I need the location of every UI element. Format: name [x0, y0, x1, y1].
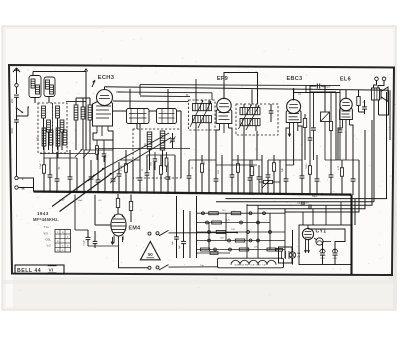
resistor 0.5M — [129, 195, 132, 223]
wire — [43, 118, 45, 150]
tuning gang link — [52, 169, 112, 212]
switch arrow — [262, 180, 270, 188]
wire B+ rail — [105, 87, 389, 90]
aerial coil L2 — [44, 77, 55, 103]
oscillator transformer box 2 — [157, 109, 177, 124]
magic eye EM4 — [111, 214, 126, 236]
wire — [208, 127, 210, 160]
wire — [83, 150, 85, 193]
grid cap arrow — [92, 80, 95, 87]
wire — [293, 131, 295, 165]
wire — [216, 164, 257, 166]
junction — [167, 192, 169, 194]
scan speckle — [9, 31, 396, 308]
wire rail — [208, 223, 210, 250]
svg-text:1µF: 1µF — [282, 167, 284, 172]
svg-text:200: 200 — [10, 98, 14, 103]
tuning arrow — [190, 101, 211, 129]
wire — [247, 120, 372, 205]
wire — [201, 155, 203, 164]
IF transformer 1 box — [189, 100, 216, 130]
wire grid lead — [85, 69, 88, 150]
wire — [350, 125, 354, 160]
coil L6 — [60, 120, 64, 132]
junction — [335, 193, 337, 195]
wire — [74, 195, 76, 231]
svg-text:ECH3: ECH3 — [98, 75, 115, 81]
svg-text:50µF: 50µF — [77, 200, 83, 202]
svg-text:MA: MA — [297, 252, 301, 255]
wire — [153, 162, 155, 193]
junction — [139, 191, 141, 193]
wire — [273, 155, 275, 163]
wire — [323, 241, 331, 243]
wire — [229, 128, 233, 160]
wire — [90, 160, 92, 177]
svg-text:°LG: °LG — [46, 244, 51, 248]
wire rail — [196, 196, 198, 258]
wire — [256, 131, 258, 160]
wire — [17, 115, 29, 117]
wire — [40, 153, 95, 155]
wire — [221, 155, 223, 194]
EBC3 cathode arrows — [288, 126, 298, 137]
wire — [93, 133, 97, 140]
wire — [345, 132, 347, 160]
IF transformer 2 box — [236, 104, 278, 135]
wire — [293, 88, 295, 100]
aerial coil L1 — [29, 72, 41, 104]
rectifier CY1 — [302, 225, 313, 240]
junction — [251, 193, 253, 195]
ground bus drop — [350, 195, 352, 265]
loudspeaker — [381, 87, 388, 102]
duo-diode-triode EBC3 — [286, 96, 301, 131]
wire — [338, 128, 343, 160]
wire — [139, 124, 141, 161]
coil L3 — [42, 106, 46, 118]
junction — [307, 193, 309, 195]
wire — [118, 162, 120, 174]
chassis ground bus — [34, 192, 352, 195]
wire — [33, 71, 86, 73]
oscillator transformer box 1 — [127, 109, 150, 124]
oscillator coil L9 — [88, 98, 92, 150]
wire — [345, 90, 347, 98]
wire — [294, 92, 340, 94]
wire — [146, 155, 148, 173]
wire — [195, 79, 197, 89]
wire — [267, 160, 269, 175]
padder coil 2 — [160, 131, 165, 170]
dropper row 145 — [197, 229, 286, 234]
wire — [232, 159, 262, 161]
antenna terminal — [15, 84, 18, 87]
aerial switch — [16, 107, 24, 113]
wire — [249, 160, 251, 178]
wire — [169, 232, 238, 234]
heater leads — [305, 240, 310, 253]
wire — [226, 92, 387, 199]
band selector arrows — [75, 150, 90, 159]
wire — [389, 90, 391, 140]
wire riser — [302, 212, 304, 225]
wire — [261, 155, 263, 194]
wire — [160, 155, 162, 166]
schematic paper — [9, 65, 394, 275]
switch S1 — [148, 230, 169, 235]
wire — [216, 201, 374, 203]
detector load resistor — [250, 160, 253, 193]
svg-text:16µF 450V: 16µF 450V — [297, 201, 309, 204]
svg-text:550V: 550V — [320, 258, 325, 260]
wire — [76, 97, 90, 99]
coil L4b — [49, 130, 53, 145]
wire riser — [340, 202, 342, 225]
svg-text:EM4: EM4 — [129, 226, 141, 232]
wire — [16, 97, 18, 107]
wire — [215, 160, 217, 179]
wire — [335, 92, 337, 160]
wire — [378, 100, 380, 115]
reservoir capacitor 4uF — [320, 246, 326, 265]
wire — [18, 178, 33, 192]
wire — [330, 160, 332, 175]
wire — [316, 155, 318, 179]
wire — [388, 90, 390, 101]
wire — [279, 160, 281, 194]
wire — [118, 236, 120, 247]
wire — [354, 199, 356, 225]
svg-text:BELL 44: BELL 44 — [17, 268, 41, 274]
svg-text:5000: 5000 — [306, 163, 308, 169]
wire screen feed — [224, 73, 258, 105]
wire — [9, 65, 394, 275]
pilot lamp — [314, 238, 323, 245]
svg-text:100: 100 — [37, 136, 40, 141]
wire — [293, 88, 295, 92]
junction — [265, 193, 267, 195]
wire — [309, 160, 311, 166]
wire — [95, 224, 111, 226]
wire — [285, 165, 287, 179]
terminal T — [15, 176, 25, 181]
IF2 primary coil — [240, 104, 260, 115]
junction — [56, 191, 58, 193]
wire — [243, 131, 245, 193]
wire rail — [257, 206, 259, 259]
wire — [286, 164, 294, 166]
volume potentiometer — [321, 112, 330, 160]
wire riser — [312, 209, 314, 225]
wire — [43, 146, 45, 158]
wire — [167, 162, 169, 177]
rectifier box — [299, 225, 352, 265]
junction — [279, 193, 281, 195]
wire — [69, 150, 71, 177]
capacitor 100pF — [269, 104, 274, 122]
coil L6b — [63, 130, 67, 145]
junction — [223, 192, 225, 194]
small resistors above dropper — [197, 249, 283, 255]
wire — [305, 85, 307, 92]
switch S2 mains — [148, 265, 169, 270]
wire — [76, 158, 78, 193]
wire — [104, 155, 106, 193]
terminal M — [15, 186, 26, 191]
band switch partition — [52, 103, 54, 153]
wire — [48, 132, 50, 150]
coil L5b — [56, 128, 60, 146]
wire — [84, 149, 113, 151]
wire — [322, 242, 324, 247]
svg-text:2000: 2000 — [11, 128, 14, 134]
coil L4 — [47, 120, 51, 132]
capacitor ECH3 cathode — [102, 140, 107, 162]
mains connector — [279, 247, 293, 263]
svg-text:50µF: 50µF — [312, 195, 318, 198]
junction — [321, 193, 323, 195]
tuning gang link extension — [104, 133, 171, 174]
wire — [169, 266, 218, 268]
wire — [309, 86, 311, 93]
wire — [308, 229, 345, 246]
wire — [189, 211, 191, 258]
wire — [325, 159, 359, 161]
junction — [112, 191, 114, 193]
capacitor 50uF — [302, 201, 304, 206]
wire — [321, 85, 325, 87]
wire — [16, 108, 18, 120]
junction — [69, 191, 71, 193]
wire — [57, 118, 59, 150]
junction — [209, 192, 211, 194]
waveband table — [55, 230, 71, 253]
wire — [298, 126, 302, 160]
output transformer — [372, 88, 380, 100]
resistor 1M — [116, 194, 119, 214]
wire — [49, 158, 51, 175]
padder coil 1 — [145, 132, 152, 170]
lamp MA TH — [289, 252, 301, 258]
wire — [57, 146, 59, 158]
wire — [211, 93, 213, 100]
wire — [284, 209, 286, 212]
svg-text:EL6: EL6 — [340, 77, 351, 83]
antenna — [13, 68, 20, 83]
wire — [223, 85, 225, 99]
coil L5 — [56, 106, 60, 118]
junction — [153, 192, 155, 194]
wire — [216, 130, 220, 160]
wire — [97, 160, 104, 162]
cathode resistor 25 — [357, 90, 366, 112]
dropper row 220 — [197, 246, 286, 251]
oscillator coil L8 — [81, 98, 85, 150]
grid resistor 0.5M — [303, 114, 306, 160]
triode-hexode ECH3 — [93, 87, 113, 136]
capacitor 0.1uF — [84, 230, 91, 246]
wire — [61, 132, 63, 150]
wire — [352, 160, 354, 179]
wire — [231, 160, 233, 175]
output pentode EL6 — [340, 90, 353, 132]
waveband list — [43, 225, 51, 248]
wire — [195, 127, 197, 193]
wire — [75, 229, 88, 231]
wire rail — [246, 204, 248, 258]
oscillator coil L7 — [74, 98, 78, 150]
wire — [18, 187, 33, 189]
wire — [56, 152, 58, 179]
wire — [292, 230, 294, 252]
coupling capacitor 10000pF — [311, 92, 316, 160]
title box BELL 44 VI — [15, 265, 64, 274]
wire — [136, 124, 138, 130]
svg-text:4µF: 4µF — [321, 249, 325, 251]
band switch box — [38, 103, 67, 153]
svg-text:550V: 550V — [333, 258, 338, 260]
wire — [188, 160, 190, 176]
wire — [139, 85, 141, 95]
speaker terminal 2 — [382, 77, 386, 81]
wire — [112, 140, 114, 179]
wire — [139, 160, 141, 178]
cathode resistor ECH3 — [96, 140, 99, 160]
wire screen rail — [140, 85, 340, 86]
AVC resistor — [259, 180, 280, 183]
wire — [177, 110, 182, 112]
ground bus drop 2 — [350, 265, 352, 275]
wire — [174, 155, 176, 194]
wire — [97, 150, 99, 180]
wire — [251, 90, 253, 105]
wire — [118, 91, 212, 94]
capacitor 0.5uF — [93, 231, 98, 248]
padder box — [133, 129, 181, 178]
wire — [119, 247, 149, 268]
wire — [66, 101, 86, 103]
capacitor 0.1uF anode — [308, 93, 313, 161]
svg-text:EBC3: EBC3 — [286, 76, 302, 82]
wire — [286, 128, 290, 165]
wire — [379, 102, 389, 116]
wire — [94, 195, 96, 225]
padder resistor — [165, 152, 168, 172]
IF2 secondary coil — [240, 119, 260, 132]
capacitor 0.1uF — [308, 205, 310, 210]
svg-text:0.5µF: 0.5µF — [40, 163, 42, 169]
wire — [310, 85, 316, 87]
wire — [125, 150, 127, 164]
wire riser — [325, 205, 327, 225]
trimmer capacitor — [170, 133, 176, 148]
wire — [44, 157, 77, 159]
capacitor 200pF — [10, 95, 19, 103]
dropper row 200 — [197, 237, 286, 242]
tuning arrow — [239, 105, 260, 131]
junction — [181, 192, 183, 194]
svg-text:T.LL: T.LL — [44, 225, 50, 229]
padder capacitor 250pF — [151, 152, 158, 170]
wire rail — [225, 213, 227, 240]
wire — [180, 111, 182, 178]
svg-text:°KG: °KG — [43, 232, 48, 236]
wire — [88, 245, 119, 247]
junction — [237, 192, 239, 194]
electrolytic 8uF — [179, 210, 186, 258]
wire — [167, 89, 169, 109]
wire — [122, 236, 124, 241]
svg-text:8µF: 8µF — [333, 249, 337, 251]
svg-text:4µF: 4µF — [172, 240, 174, 244]
wire — [113, 110, 127, 112]
capacitor 2000pF — [11, 120, 19, 134]
wire — [113, 100, 189, 103]
svg-text:1943: 1943 — [37, 211, 49, 216]
dropper row 110 — [197, 210, 286, 215]
wire — [28, 107, 29, 116]
wire — [16, 122, 18, 176]
wire — [132, 160, 134, 193]
svg-text:MF=445KHz.: MF=445KHz. — [33, 217, 59, 222]
wire — [189, 159, 216, 161]
cathode capacitor — [362, 100, 367, 114]
junction — [43, 191, 45, 193]
wire — [268, 159, 302, 161]
wire — [208, 160, 210, 194]
capacitor 0.01uF — [294, 84, 331, 97]
svg-text:50: 50 — [148, 252, 153, 257]
junction — [195, 192, 197, 194]
wire — [129, 89, 131, 109]
wire rail — [269, 213, 271, 249]
wire — [341, 160, 343, 168]
wire — [93, 139, 113, 141]
wire — [373, 100, 375, 202]
IF1 primary coil — [193, 100, 212, 111]
wire — [301, 160, 303, 176]
wire — [113, 236, 115, 244]
junction — [349, 194, 351, 196]
svg-text:EF9: EF9 — [217, 76, 228, 82]
wire — [95, 148, 190, 150]
warning triangle 50 — [140, 242, 160, 260]
wire — [195, 89, 197, 100]
svg-text:0.1µF: 0.1µF — [84, 240, 86, 246]
wire — [292, 258, 294, 264]
wire rail — [284, 209, 286, 258]
wire — [43, 158, 45, 165]
wire — [140, 95, 190, 98]
junction — [83, 191, 85, 193]
capacitor 50pF — [338, 90, 343, 160]
svg-text:TH: TH — [297, 256, 300, 258]
wire — [258, 130, 365, 209]
smoothing capacitor 8uF — [332, 246, 338, 265]
junction — [125, 191, 127, 193]
dropper row 125 — [197, 219, 271, 224]
wire — [16, 87, 18, 94]
wire — [237, 155, 239, 164]
grid leak resistor — [329, 92, 332, 160]
junction — [97, 191, 99, 193]
speaker terminal 1 — [375, 77, 379, 81]
wire — [374, 81, 377, 88]
junction — [236, 231, 238, 233]
wire — [285, 160, 359, 212]
wire — [147, 154, 175, 156]
